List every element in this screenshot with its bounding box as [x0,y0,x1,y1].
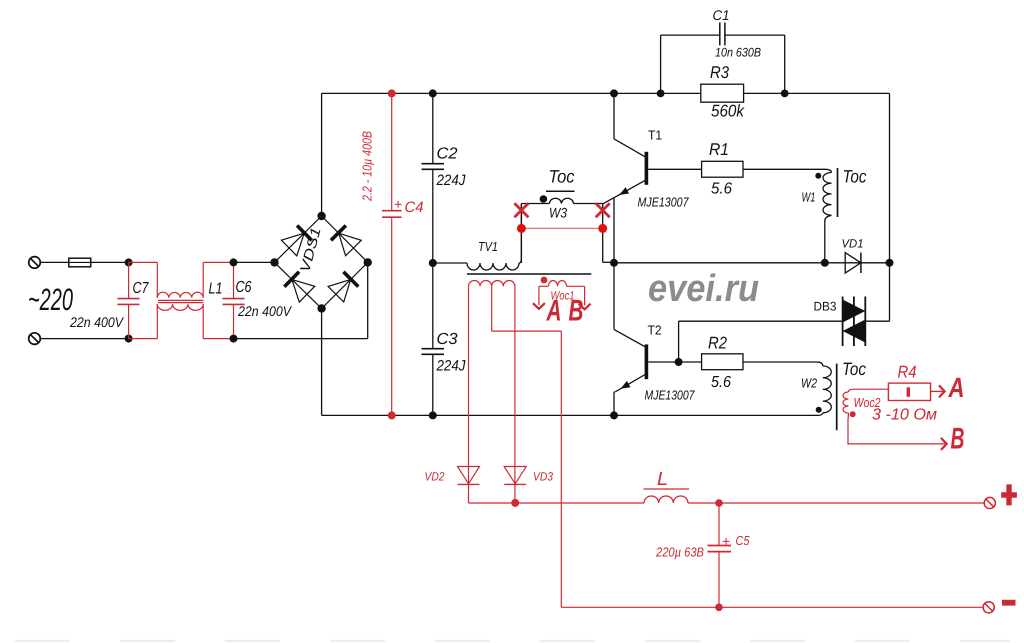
label + (output) [1001,484,1017,505]
svg-text:B: B [569,295,584,328]
resistor R3 [701,84,744,102]
svg-text:C2: C2 [437,146,458,163]
node: top rail / T1 collector [610,89,618,97]
node: VD1 / right rail [886,259,894,267]
label VD2 [425,470,445,484]
svg-text:C1: C1 [713,7,730,23]
svg-text:10n 630B: 10n 630B [715,46,761,60]
label DB3 [814,300,837,314]
wire: bottom terminal to node [40,338,128,340]
wire red: TV1 center tap to output minus [492,286,562,607]
svg-text:evei.ru: evei.ru [648,268,759,310]
svg-text:DB3: DB3 [814,300,837,314]
svg-text:Toc: Toc [843,167,867,187]
node: top rail / C2 [429,89,437,97]
core line L [644,488,690,490]
svg-text:3 -10 Ом: 3 -10 Ом [872,407,937,424]
node: C7 bottom [125,335,133,343]
label A (output) [948,372,965,403]
svg-text:~220: ~220 [28,282,73,317]
arrow T1 emitter [619,187,629,195]
phase dot Woc1 [541,277,548,284]
label VDS1 [296,225,323,274]
wire red: L1 to C6 bottom [203,338,233,340]
bridge frame VDS1 [275,216,368,309]
label C7 [133,280,150,297]
label Woc2 [854,395,882,410]
phase dot W2 [816,407,822,413]
label R3 [710,63,729,82]
capacitor C4 (electrolytic) [382,93,402,415]
svg-text:MJE13007: MJE13007 [645,388,696,403]
label VD3 [533,470,553,484]
wire: DB3 to T2 base [679,321,843,362]
svg-text:+: + [722,533,730,549]
svg-text:Toc: Toc [549,167,575,187]
label ~220 [28,282,73,317]
capacitor C2 [422,93,445,263]
label MJE13007 (T2) [645,388,696,403]
svg-text:R1: R1 [709,140,729,159]
arrow Woc1 lead B [579,304,591,310]
label 5.6 (R1 value) [711,181,732,198]
label Toc (W3) [549,167,575,187]
wire: C6 to bridge left [234,261,275,263]
label 220u 63B (C5 value) [655,545,704,560]
label C6 [236,279,252,296]
node: C5 bottom (red) [715,604,723,612]
svg-text:TV1: TV1 [478,239,498,254]
svg-text:224J: 224J [436,172,466,189]
winding Toc W1 [823,173,832,263]
node: R3 right [781,90,789,98]
transistor T1 [603,93,702,263]
node: T2 emitter / bottom rail [610,411,618,419]
svg-text:A: A [546,295,562,328]
resistor R2 [702,354,743,370]
label 560k (R3 value) [711,102,745,121]
inductor L1 (common-mode choke) [157,262,203,338]
label W1 [802,190,816,205]
wire: bottom rail [322,414,818,416]
node: C7 top [125,258,133,266]
bottom edge artifact line [15,640,1010,642]
label W3 [549,205,567,221]
node: bridge left [270,258,278,266]
svg-text:VD1: VD1 [842,237,864,251]
label R2 [708,334,727,353]
wire: R3-C1 right branch [725,35,785,93]
svg-text:22n 400V: 22n 400V [237,303,292,319]
arrow T2 emitter [621,381,631,389]
wire red: R4 to A [931,390,944,392]
label 224J (C2 value) [436,172,466,189]
input terminal top (~220 phase) [29,257,41,269]
svg-text:W1: W1 [802,190,816,205]
label 224J (C3 value) [436,358,466,375]
capacitor C6 [223,262,245,338]
svg-text:R4: R4 [898,363,917,382]
resistor R4 (red) [888,383,930,400]
svg-text:2.2 - 10µ 400B: 2.2 - 10µ 400B [360,131,375,202]
node: T2 base / DB3 [675,358,683,366]
label - (output) [1002,600,1016,606]
wire: top terminal to fuse [40,261,69,263]
svg-text:C7: C7 [133,280,150,297]
label C3 [437,331,458,348]
label Toc (W2) [842,359,866,379]
winding Woc2 (red) [843,389,888,444]
bridge diode D2 (right-top) [331,226,361,256]
phase dot W3 [540,195,548,203]
wire: bottom to bridge right [234,262,368,338]
label T2 [648,323,662,338]
node: R3 left [657,90,665,98]
jumper node right (red) [598,224,607,233]
cut mark X left [514,203,528,217]
diac DB3 [843,297,866,347]
winding Toc W3 [521,198,602,203]
svg-text:VD3: VD3 [533,470,553,484]
label TV1 [478,239,498,254]
label + C4 [394,196,424,216]
transformer TV1 core [467,273,591,275]
svg-text:220µ 63B: 220µ 63B [655,545,704,560]
svg-text:5.6: 5.6 [711,181,732,198]
transformer TV1 primary [433,204,522,271]
svg-text:VD2: VD2 [425,470,445,484]
svg-text:L: L [657,469,668,490]
diode VD1 [845,253,861,273]
wire: top rail [322,92,890,94]
core bar W1 [837,168,839,217]
label 2.2-10u 400B (C4 value, rotated) [360,131,375,202]
svg-text:C3: C3 [437,331,458,348]
label 3-10 Om [872,407,937,424]
label Toc (W1) [843,167,867,187]
wire: bridge bottom to -rail [321,309,323,416]
wire: TV1 primary up to W3 left [520,204,522,264]
arrow B (output) [941,438,947,450]
svg-text:22n 400V: 22n 400V [69,314,124,330]
wire: R1 to W1 [743,169,832,172]
resistor R1 [702,161,743,177]
wire red: Woc2 to B [848,443,945,445]
label R4 [898,363,917,382]
phase dot W1 [815,173,821,179]
label C2 [437,146,458,163]
arrow Woc1 lead A [533,303,545,309]
bridge diode D3 (bottom-left) [284,272,314,302]
diode VD3 (red) [504,467,526,485]
label 22n 400V (C7 value) [69,314,124,330]
svg-text:R2: R2 [708,334,727,353]
label A (Woc1) [546,295,562,328]
svg-text:A: A [948,372,965,403]
node: bottom rail / C3 [429,411,437,419]
svg-text:R3: R3 [710,63,729,82]
label W2 [801,376,818,391]
node: C2-C3 junction (TV1 tap) [429,259,437,267]
winding Woc1 (red) [539,280,585,305]
label 22n 400V (C6 value) [237,303,292,319]
svg-text:MJE13007: MJE13007 [638,195,690,210]
node: bridge bottom [317,304,325,312]
node: C4 bottom (red) [388,411,396,419]
svg-text:B: B [951,423,965,456]
watermark evei.ru [648,268,759,310]
output terminal - [983,602,994,613]
wire red: L to + output [688,502,984,504]
label VD1 [842,237,864,251]
svg-text:224J: 224J [436,358,466,375]
label + C5 [722,533,750,549]
inductor L (red) [644,496,688,503]
capacitor C1 [720,23,725,46]
svg-text:Toc: Toc [842,359,866,379]
node: C4 top (red) [388,89,396,97]
transformer TV1 secondary (red, center-tapped) [469,280,515,286]
phase dot Woc2 (red) [850,411,856,417]
svg-text:+: + [394,196,402,212]
node: C6 top [230,258,238,266]
label L [657,469,668,490]
label T1 [648,128,662,143]
jumper node left (red) [517,224,526,233]
wire red: C7 to L1 bottom [129,338,158,340]
label C1 [713,7,730,23]
wire red: TV1 tap B to VD3 [514,286,516,503]
wire: W3 right to emitter node [603,204,614,263]
svg-text:C4: C4 [405,199,424,216]
label R1 [709,140,729,159]
label B (output) [951,423,965,456]
wire: emitter node to right rail [614,262,890,264]
fuse FU [69,258,129,267]
wire red: C7 to L1 top [129,261,158,263]
svg-text:5.6: 5.6 [711,374,731,391]
wire: right rail [865,93,889,321]
node: bridge right [364,258,372,266]
label B (Woc1) [569,295,584,328]
wire red: L1 to C6 top [203,261,233,263]
wire red: TV1 tap A to VD2 [468,286,470,503]
node: W1 / VD1 [821,259,829,267]
jumper wire red (W3 bypass) [521,227,602,229]
label Woc1 [551,289,575,303]
svg-text:W2: W2 [801,376,818,391]
input terminal bottom (~220 neutral) [29,333,41,345]
label 5.6 (R2 value) [711,374,731,391]
wire red: rectifier output to L [469,502,645,504]
label MJE13007 (T1) [638,195,690,210]
transistor T2 [614,263,702,416]
core line W3 [546,190,575,192]
svg-text:C6: C6 [236,279,252,296]
svg-text:C5: C5 [736,533,751,548]
svg-text:L1: L1 [209,281,223,298]
capacitor C3 [422,263,445,415]
node: bridge top [317,212,325,220]
capacitor C5 (red electrolytic) [708,503,732,607]
wire: bridge top to +rail [321,93,323,216]
arrow A (output) [939,385,945,397]
node: half-bridge midpoint [610,259,618,267]
label 10n 630B (C1 value) [715,46,761,60]
svg-text:560k: 560k [711,102,745,121]
svg-text:T2: T2 [648,323,662,338]
node: C5 top (red) [715,499,723,507]
wire red: output minus rail [561,606,983,608]
wire: R3-C1 left branch [661,35,720,93]
svg-text:W3: W3 [549,205,567,221]
node: C6 bottom [230,335,238,343]
winding Toc W2 [818,366,831,415]
diode VD2 (red) [458,467,480,485]
core bar W2 [836,364,838,431]
bridge diode D4 (bottom-right) [328,272,358,302]
wire: R2 to W2 [743,362,823,366]
cut mark X right [596,203,610,217]
svg-text:T1: T1 [648,128,662,143]
node: VD3 output (red) [511,499,519,507]
output terminal + [984,497,995,508]
bridge diode D1 (left-top) [281,225,311,255]
label L1 [209,281,223,298]
capacitor C7 [118,262,140,338]
